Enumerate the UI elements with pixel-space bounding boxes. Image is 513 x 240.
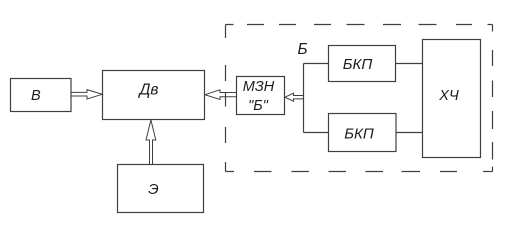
arrow МЗН to Дв <box>205 90 236 100</box>
block БКП top <box>329 46 396 82</box>
block Э <box>118 165 204 213</box>
wire junction to БКП bottom <box>304 132 330 134</box>
block ХЧ <box>423 40 481 158</box>
wire БКП top to ХЧ <box>396 63 424 65</box>
svg-text:"Б": "Б" <box>248 98 269 114</box>
wire junction to БКП top <box>304 63 330 65</box>
wire junction vertical Б <box>303 64 305 133</box>
svg-text:В: В <box>31 88 41 104</box>
svg-text:БКП: БКП <box>344 126 374 143</box>
svg-text:Дв: Дв <box>137 82 158 99</box>
block В <box>11 79 72 112</box>
dashed boundary Б : top edge <box>226 24 493 26</box>
svg-text:ХЧ: ХЧ <box>438 88 459 104</box>
svg-text:Б: Б <box>297 41 307 58</box>
arrow Б junction to МЗН <box>285 93 304 101</box>
svg-text:Э: Э <box>148 181 158 198</box>
wire БКП bottom to ХЧ <box>396 132 423 134</box>
dashed boundary Б : bottom edge <box>226 171 493 173</box>
svg-text:БКП: БКП <box>343 56 373 73</box>
dashed boundary Б : right edge <box>492 25 494 172</box>
arrow Э to Дв <box>146 120 156 164</box>
block БКП bottom <box>329 114 397 152</box>
block МЗН "Б" <box>237 77 285 115</box>
dashed boundary Б : left edge <box>225 25 227 172</box>
arrow В to Дв <box>71 90 102 99</box>
svg-text:МЗН: МЗН <box>243 79 275 95</box>
block Дв <box>103 71 205 120</box>
